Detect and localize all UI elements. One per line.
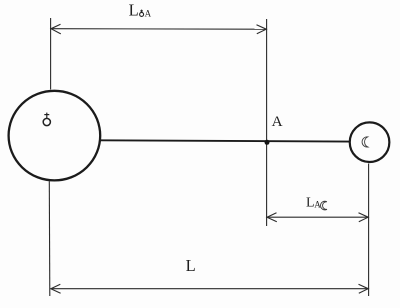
svg-text:A: A	[272, 113, 283, 130]
svg-text:L: L	[186, 256, 196, 275]
svg-text:A: A	[145, 9, 152, 19]
svg-text:A: A	[314, 199, 321, 209]
svg-text:L: L	[129, 1, 139, 20]
